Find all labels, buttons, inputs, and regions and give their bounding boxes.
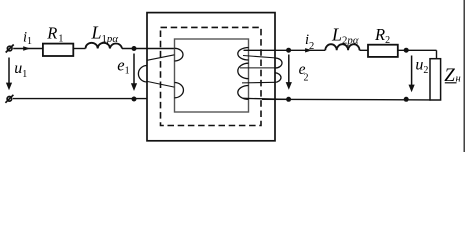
load Zn	[430, 59, 441, 100]
arrow e2	[286, 55, 292, 90]
secondary winding bump 2	[238, 63, 249, 78]
wire bottom-right	[262, 98, 431, 101]
primary winding connector lower	[147, 81, 174, 87]
core window	[175, 39, 249, 112]
transformer core dashed	[161, 27, 262, 125]
secondary back lobe 1	[275, 58, 282, 68]
terminal bottom-left	[5, 95, 13, 103]
secondary connector 1	[243, 56, 275, 58]
wire L2 to load	[360, 49, 437, 51]
wire bottom-left	[13, 98, 147, 100]
svg-text:i1: i1	[23, 30, 32, 47]
wire L1 to transformer	[122, 48, 175, 50]
primary winding connector upper	[147, 55, 174, 61]
secondary connector 2	[240, 67, 275, 69]
secondary connector 3	[242, 81, 275, 84]
svg-text:L2pα: L2pα	[331, 25, 359, 47]
secondary winding bump 1	[238, 48, 249, 61]
primary winding bump 1	[174, 48, 183, 61]
terminal top-left	[6, 45, 14, 53]
svg-text:e2: e2	[299, 61, 309, 83]
primary winding back lobe	[138, 66, 147, 83]
right border line	[463, 0, 465, 152]
inductor L2	[325, 44, 359, 50]
secondary back lobe 2	[275, 73, 281, 83]
wire top-right	[244, 49, 326, 51]
transformer outer box	[147, 13, 275, 141]
svg-text:L1pα: L1pα	[91, 23, 119, 46]
junction dot e1 bottom	[132, 97, 137, 102]
secondary winding bump 3	[238, 86, 249, 100]
underline of Z	[445, 82, 457, 84]
svg-text:u2: u2	[415, 56, 428, 76]
inductor L1	[86, 43, 123, 49]
junction dot e1 top	[132, 46, 137, 51]
junction dot u2 bottom	[404, 97, 409, 102]
wire top-left	[13, 48, 43, 50]
resistor R2	[368, 45, 398, 57]
load stub top	[436, 50, 438, 59]
svg-text:e1: e1	[117, 56, 129, 77]
svg-text:R1: R1	[46, 24, 63, 45]
wire R1 to L1	[73, 48, 85, 50]
arrow i1	[23, 46, 30, 50]
svg-text:R2: R2	[374, 25, 390, 46]
arrow u1	[6, 58, 12, 91]
arrow e1	[131, 54, 137, 92]
primary winding bump 2	[174, 83, 183, 98]
arrow u2	[409, 56, 415, 93]
secondary winding exit	[243, 98, 289, 99]
arrow i2	[305, 48, 312, 52]
junction dot e2 top	[286, 48, 291, 53]
svg-text:u1: u1	[14, 60, 27, 80]
resistor R1	[43, 44, 73, 56]
junction dot u2 top	[404, 48, 409, 53]
junction dot e2 bottom	[286, 97, 291, 102]
